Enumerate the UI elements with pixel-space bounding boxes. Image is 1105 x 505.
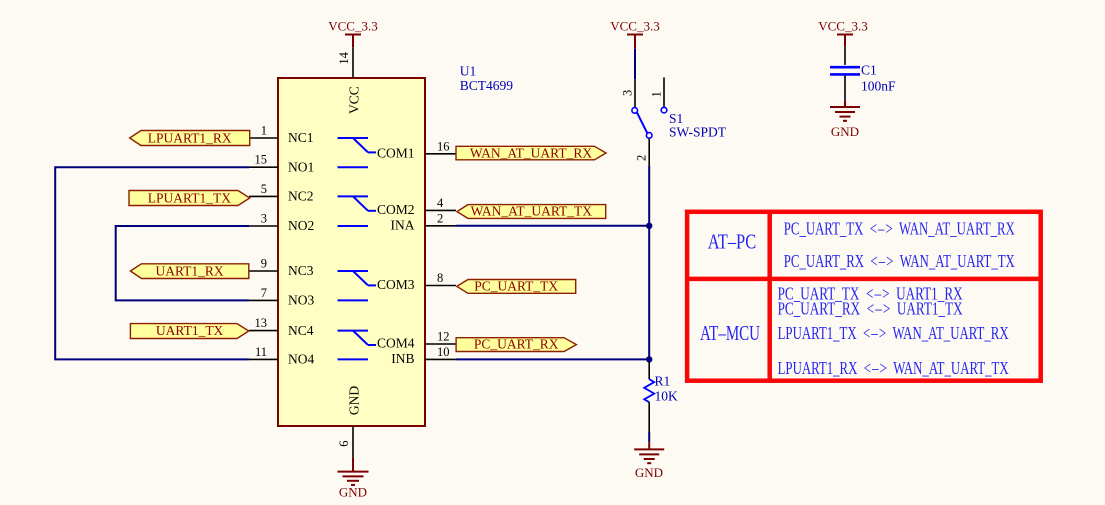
capacitor C1 — [830, 46, 896, 101]
svg-text:9: 9 — [261, 257, 267, 271]
svg-text:PC_UART_TX: PC_UART_TX — [474, 278, 558, 293]
svg-text:3: 3 — [261, 212, 267, 226]
svg-text:6: 6 — [337, 441, 351, 447]
wire — [456, 358, 649, 360]
svg-text:SW-SPDT: SW-SPDT — [669, 125, 727, 140]
svg-text:NO4: NO4 — [288, 352, 314, 367]
svg-text:NC2: NC2 — [288, 189, 314, 204]
table row2 line2 — [778, 298, 963, 318]
power VCC_3.3 switch — [610, 19, 659, 49]
pin 3 NO2 — [249, 212, 314, 234]
svg-text:WAN_AT_UART_RX: WAN_AT_UART_RX — [470, 145, 592, 160]
port WAN_AT_UART_TX — [457, 204, 606, 219]
pin 13 NC4 — [249, 316, 314, 338]
svg-text:LPUART1_TX: LPUART1_TX — [148, 190, 231, 205]
wire — [634, 49, 636, 79]
pin 10 INB — [391, 345, 456, 366]
pin 8 COM3 — [377, 271, 456, 292]
pin 9 NC3 — [249, 257, 314, 279]
svg-text:8: 8 — [437, 271, 443, 285]
svg-text:R1: R1 — [655, 373, 671, 388]
ground C1 — [830, 101, 860, 139]
svg-text:WAN_AT_UART_TX: WAN_AT_UART_TX — [471, 204, 593, 219]
svg-text:GND: GND — [635, 465, 663, 480]
svg-text:COM1: COM1 — [377, 146, 415, 161]
power VCC_3.3 chip — [328, 19, 377, 48]
svg-text:NO1: NO1 — [288, 159, 314, 174]
svg-text:COM4: COM4 — [377, 336, 415, 351]
svg-text:COM2: COM2 — [377, 202, 415, 217]
port PC_UART_RX — [456, 337, 576, 352]
svg-text:VCC_3.3: VCC_3.3 — [610, 19, 659, 34]
ground R1 — [634, 442, 664, 480]
svg-text:VCC_3.3: VCC_3.3 — [328, 19, 377, 34]
svg-text:4: 4 — [437, 196, 444, 210]
table label AT-PC — [708, 229, 757, 253]
pin 16 COM1 — [377, 139, 456, 160]
svg-text:10: 10 — [437, 345, 450, 359]
resistor R1 — [644, 362, 678, 431]
node junction INA/switch — [646, 223, 652, 229]
svg-text:2: 2 — [635, 155, 649, 161]
ground chip — [338, 457, 369, 499]
svg-text:11: 11 — [255, 345, 267, 359]
wire — [648, 431, 650, 442]
svg-text:VCC_3.3: VCC_3.3 — [818, 19, 867, 34]
svg-text:VCC: VCC — [347, 86, 362, 114]
svg-text:LPUART1_TX < – > WAN_AT_UART_R: LPUART1_TX < – > WAN_AT_UART_RX — [778, 323, 1009, 343]
svg-text:7: 7 — [261, 286, 267, 300]
pin 7 NO3 — [249, 286, 314, 308]
switch glyph channel 1 — [338, 138, 377, 167]
pin 2 INA — [391, 211, 457, 232]
table row1 line1 — [784, 218, 1015, 238]
svg-text:AT–PC: AT–PC — [708, 229, 757, 253]
switch S1 — [621, 77, 727, 165]
svg-text:14: 14 — [337, 51, 351, 64]
svg-text:1: 1 — [261, 124, 267, 138]
svg-text:AT–MCU: AT–MCU — [700, 321, 760, 345]
svg-text:UART1_RX: UART1_RX — [155, 263, 223, 278]
svg-text:PC_UART_TX < – > WAN_AT_UART_R: PC_UART_TX < – > WAN_AT_UART_RX — [784, 218, 1015, 238]
table AT modes — [687, 212, 1041, 381]
pin 5 NC2 — [249, 182, 314, 204]
pin 11 NO4 — [249, 345, 314, 367]
pin 1 NC1 — [249, 124, 314, 146]
svg-text:NO2: NO2 — [288, 218, 314, 233]
pin 14 VCC — [337, 47, 362, 114]
svg-text:LPUART1_RX: LPUART1_RX — [148, 130, 232, 145]
port WAN_AT_UART_RX — [456, 145, 606, 160]
wire — [456, 225, 649, 227]
table row2 line1 — [778, 283, 963, 303]
svg-text:COM3: COM3 — [377, 277, 415, 292]
table row1 line2 — [784, 251, 1015, 271]
svg-text:U1: U1 — [460, 64, 477, 79]
svg-text:INB: INB — [391, 351, 414, 366]
port UART1_TX — [130, 323, 248, 338]
svg-text:15: 15 — [255, 153, 268, 167]
svg-text:PC_UART_RX < – > WAN_AT_UART_T: PC_UART_RX < – > WAN_AT_UART_TX — [784, 251, 1015, 271]
designator U1 — [460, 64, 477, 79]
svg-text:NO3: NO3 — [288, 293, 314, 308]
svg-text:2: 2 — [437, 211, 443, 225]
IC U1 BCT4699 analog switch body — [278, 78, 425, 426]
pin 4 COM2 — [377, 196, 456, 217]
port PC_UART_TX — [457, 278, 576, 293]
svg-text:NC3: NC3 — [288, 263, 314, 278]
svg-text:16: 16 — [437, 139, 450, 153]
svg-text:12: 12 — [437, 330, 450, 344]
switch glyph channel 2 — [338, 196, 377, 226]
port LPUART1_RX — [130, 130, 250, 145]
svg-text:10K: 10K — [655, 389, 679, 404]
svg-text:3: 3 — [621, 90, 635, 96]
table row2 line3 — [778, 323, 1009, 343]
svg-text:BCT4699: BCT4699 — [460, 78, 514, 93]
wire — [116, 226, 249, 300]
svg-text:INA: INA — [391, 218, 415, 233]
port UART1_RX — [130, 263, 248, 278]
node junction INB/R1 — [646, 356, 652, 362]
svg-text:5: 5 — [261, 182, 267, 196]
svg-text:NC1: NC1 — [288, 130, 314, 145]
svg-text:PC_UART_RX: PC_UART_RX — [474, 337, 559, 352]
pin 15 NO1 — [249, 153, 314, 175]
table label AT-MCU — [700, 321, 760, 345]
wire — [55, 167, 249, 359]
value BCT4699 — [460, 78, 514, 93]
table row2 line4 — [778, 358, 1009, 378]
port LPUART1_TX — [129, 190, 250, 205]
switch glyph channel 4 — [338, 331, 377, 360]
svg-text:PC_UART_RX < – > UART1_TX: PC_UART_RX < – > UART1_TX — [778, 298, 963, 318]
svg-text:GND: GND — [831, 124, 859, 139]
svg-text:1: 1 — [650, 91, 664, 97]
pin 12 COM4 — [377, 330, 456, 351]
svg-text:GND: GND — [339, 485, 367, 500]
svg-text:13: 13 — [255, 316, 268, 330]
pin 6 GND — [337, 386, 362, 458]
svg-text:LPUART1_RX < – > WAN_AT_UART_T: LPUART1_RX < – > WAN_AT_UART_TX — [778, 358, 1009, 378]
svg-text:C1: C1 — [861, 63, 877, 78]
svg-text:100nF: 100nF — [861, 79, 896, 94]
svg-text:UART1_TX: UART1_TX — [156, 323, 224, 338]
switch glyph channel 3 — [338, 271, 377, 300]
svg-text:NC4: NC4 — [288, 323, 314, 338]
power VCC_3.3 C1 — [818, 19, 867, 47]
svg-text:GND: GND — [347, 386, 362, 415]
wire — [648, 165, 650, 360]
